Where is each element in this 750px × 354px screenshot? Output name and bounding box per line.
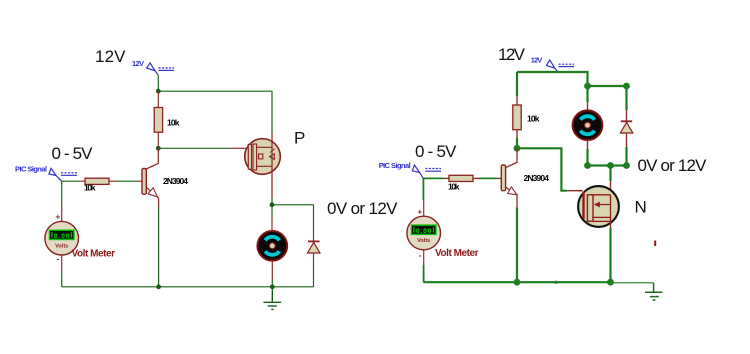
wire: P-MOSFET drain-source vertical (red) <box>271 134 273 198</box>
svg-text:+: + <box>418 208 423 217</box>
terminal PIC Signal (left) <box>49 168 77 181</box>
wire: gate wire to P-MOSFET <box>158 147 232 149</box>
wire: drain down to N-MOSFET <box>609 166 611 182</box>
resistor R1 10k (left, vertical) <box>154 108 162 133</box>
wire: top branch to diode (right) <box>588 86 627 110</box>
svg-text:PIC Signal: PIC Signal <box>379 161 411 170</box>
mosfet N (right N-channel) <box>578 186 619 227</box>
transistor Q2 2N3904 (right NPN) <box>501 148 517 207</box>
voltmeter VM1 (left) <box>45 181 79 287</box>
diode D2 (right) <box>620 110 633 166</box>
node: small dot <box>554 281 557 284</box>
svg-text:10k: 10k <box>527 114 540 124</box>
svg-text:12V: 12V <box>531 56 543 65</box>
wire: branch to diode (left) <box>272 205 314 230</box>
svg-text:12V: 12V <box>95 47 126 66</box>
stray red mark <box>654 241 656 247</box>
svg-text:Volts: Volts <box>55 243 68 249</box>
svg-text:-: - <box>57 255 60 264</box>
svg-text:Volt Meter: Volt Meter <box>72 248 116 259</box>
svg-text:0V or 12V: 0V or 12V <box>327 199 398 218</box>
svg-text:12V: 12V <box>498 45 526 64</box>
power terminal 12V (right) <box>547 60 575 72</box>
wire: 12V terminal to top junction <box>157 75 159 91</box>
wire: bottom rail (right) <box>423 281 612 283</box>
svg-text:2N3904: 2N3904 <box>163 176 188 186</box>
resistor R2 10k (left, horizontal) <box>85 178 109 184</box>
node: motor bottom <box>584 162 591 169</box>
wire: motor bottom pin (right) <box>587 141 589 149</box>
node: rail-source (right) <box>607 279 614 286</box>
svg-text:0 - 5V: 0 - 5V <box>415 142 457 161</box>
diode D1 (left) <box>308 230 321 287</box>
wire: emitter down to rail (right) <box>516 207 518 282</box>
wire: top rail (right) <box>517 72 588 86</box>
motor M1 (left) <box>257 231 287 261</box>
transistor Q1 2N3904 (left NPN) <box>142 148 159 207</box>
mosfet P (left P-channel) <box>245 139 281 175</box>
wire: gate path to N-MOSFET <box>517 148 567 190</box>
svg-text:Volt Meter: Volt Meter <box>435 248 479 259</box>
svg-text:10k: 10k <box>448 182 460 192</box>
wire: gate pin (red) <box>232 147 247 149</box>
wire: motor bottom pin <box>271 262 273 280</box>
node: rail-emitter (right) <box>514 279 521 286</box>
svg-text:+: + <box>56 213 61 222</box>
svg-text:0.00: 0.00 <box>416 228 432 235</box>
wire: bottom rail (left) <box>62 286 314 288</box>
svg-text:0 - 5V: 0 - 5V <box>52 144 94 163</box>
ground (left) <box>263 287 281 310</box>
svg-text:-: - <box>419 251 422 260</box>
svg-text:0.00: 0.00 <box>54 233 70 240</box>
svg-text:Volts: Volts <box>417 238 430 244</box>
wire: base wire right <box>423 177 443 179</box>
resistor R3 10k (right, vertical) <box>513 105 521 130</box>
wire: N-MOSFET source down <box>610 221 612 228</box>
wire: base wire left <box>62 180 79 182</box>
svg-text:N: N <box>635 197 647 216</box>
resistor R4 10k (right, horizontal) <box>449 175 473 181</box>
wire: top rail to P-MOSFET source <box>158 91 272 134</box>
svg-text:2N3904: 2N3904 <box>524 173 550 183</box>
svg-text:10k: 10k <box>167 118 180 128</box>
voltmeter VM2 (right) <box>407 178 441 282</box>
ground (right) <box>645 283 662 300</box>
node: drain junction <box>607 162 614 169</box>
svg-text:0V or 12V: 0V or 12V <box>638 156 708 175</box>
power terminal 12V (left) <box>147 63 174 75</box>
svg-text:10k: 10k <box>84 183 96 193</box>
wire: emitter down to rail <box>158 207 160 286</box>
wire: R1 bottom pin <box>157 132 159 148</box>
svg-text:12V: 12V <box>132 59 144 68</box>
node: diode bottom <box>623 162 630 169</box>
node: top junction <box>156 89 161 94</box>
wire: pin into R1 top <box>157 91 159 107</box>
node: diode top corner <box>623 83 630 90</box>
svg-text:P: P <box>294 129 305 148</box>
terminal PIC Signal (right) <box>412 165 441 178</box>
node: rail-motor-ground <box>270 284 275 289</box>
wire: down to R1 right <box>516 72 518 96</box>
wire: motor-diode bottom rail (right) <box>588 164 627 166</box>
node: motor top junction <box>270 202 275 207</box>
node: rail-emitter <box>156 284 161 289</box>
node: motor-diode top junction <box>584 83 591 90</box>
node: collector junction (right) <box>514 145 521 152</box>
svg-text:PIC Signal: PIC Signal <box>15 164 47 173</box>
wire: motor top pin <box>271 205 273 217</box>
wire: motor top pin (right) <box>586 86 588 102</box>
motor M2 (right) <box>573 110 603 140</box>
node: gate junction <box>156 146 161 151</box>
